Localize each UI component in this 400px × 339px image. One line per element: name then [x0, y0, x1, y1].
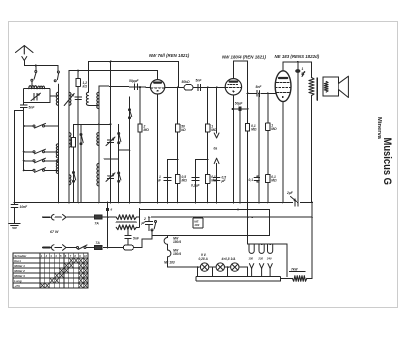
svg-text:6: 6 [111, 208, 113, 212]
svg-text:0,2µF: 0,2µF [191, 184, 200, 188]
capacitor 5nF below L1 [15, 103, 36, 111]
wire L1 box to coil rail [50, 95, 58, 97]
tube V1 NW76 [150, 71, 164, 203]
svg-text:µF: µF [221, 179, 227, 183]
capacitor 5nF (after 50k) [196, 79, 203, 91]
coil column x98.8 [97, 86, 99, 203]
resistor 50k [182, 80, 193, 90]
svg-text:1MΩ: 1MΩ [211, 125, 217, 133]
band switch row 4 [23, 168, 59, 173]
svg-text:NE 183 (RENS 1822d): NE 183 (RENS 1822d) [275, 54, 320, 59]
bus2 y209.5 [140, 209, 270, 237]
svg-text:150: 150 [248, 256, 253, 260]
svg-text:1MΩ: 1MΩ [271, 124, 277, 132]
tube V3 NE183 output pentode [275, 62, 291, 203]
selector pin 240 [268, 264, 272, 277]
selector pin 220 [259, 264, 263, 277]
svg-text:+TA: +TA [14, 284, 20, 288]
ground bus y202.5 [14, 202, 313, 204]
svg-text:0a: 0a [214, 147, 218, 151]
lamp 2 [216, 263, 224, 271]
svg-text:0,1MΩ: 0,1MΩ [271, 175, 277, 183]
V3 top line to transformer [283, 61, 312, 63]
varcap column x110.5 [106, 62, 115, 203]
svg-text:Minerva: Minerva [376, 117, 382, 140]
svg-text:0,28 A: 0,28 A [199, 257, 209, 261]
svg-text:5nF: 5nF [133, 237, 140, 241]
svg-text:50µF: 50µF [235, 101, 244, 105]
svg-text:183: 183 [194, 223, 199, 227]
mains row1 y217.2 [43, 214, 116, 225]
column x177.7 R50k + 0.5M [176, 87, 188, 202]
svg-text:67 W: 67 W [50, 230, 59, 234]
svg-text:0,1MΩ: 0,1MΩ [211, 175, 217, 183]
column x216.6 jack 0a [213, 87, 226, 202]
tube V2 NW180 [225, 61, 241, 203]
dropper resistors [116, 209, 139, 230]
horiz y150.2 stub [119, 149, 131, 151]
column x195.5 cap 0.2uF [191, 159, 209, 203]
column x207.7 R1M + 0.1M [206, 87, 217, 202]
mains switch cap 2uF [141, 216, 157, 231]
switch column x118.7 [118, 124, 121, 202]
output transformer primary [309, 62, 314, 203]
selector fork 150 [248, 244, 254, 260]
column x140 R 2M [138, 87, 149, 203]
svg-text:Mittel 3: Mittel 3 [14, 274, 25, 278]
svg-text:1,2kΩ: 1,2kΩ [83, 81, 88, 89]
svg-text:50kΩ: 50kΩ [182, 80, 191, 84]
svg-text:0,1: 0,1 [249, 178, 254, 182]
svg-text:7A: 7A [95, 222, 100, 226]
vertical x107.6 [107, 203, 109, 248]
resistor to rail [281, 267, 313, 281]
grid line y70.6 [69, 70, 158, 72]
coil rail A x58 [56, 92, 58, 203]
lamp wiring [197, 266, 248, 277]
selector pin 150 [249, 264, 253, 277]
horiz y108.4 + electrolytic 50uF [232, 101, 249, 202]
lamp 3 [231, 263, 239, 271]
antenna [16, 46, 34, 66]
horiz y158.8 stub [104, 158, 119, 160]
lamp 1 [200, 263, 208, 271]
right rail to bottom [311, 203, 313, 279]
mains row2 y247.5 [43, 231, 152, 251]
line after V2 y92.4 [247, 92, 276, 94]
svg-text:NW 76/l (REN 1821): NW 76/l (REN 1821) [149, 53, 190, 58]
band switch rail [23, 111, 25, 171]
svg-text:Kurz: Kurz [14, 259, 21, 263]
switch S2 [54, 71, 59, 92]
speaker [323, 76, 348, 97]
cathode electrolytic x297.8 [295, 62, 306, 203]
svg-text:µF: µF [156, 179, 162, 183]
column x267.8 R1M + R0.1M [266, 93, 277, 202]
svg-text:180/4: 180/4 [173, 252, 181, 256]
selector fork 240 [266, 244, 273, 260]
cap 5nF across [125, 226, 140, 248]
svg-text:2µF: 2µF [286, 191, 294, 195]
band switch row 3 [23, 158, 59, 163]
tube id box [193, 217, 203, 228]
band switch row 2 [23, 149, 59, 154]
column x167.5 cathode bypass 1uF [156, 159, 179, 203]
svg-text:5nF: 5nF [29, 106, 36, 110]
feedback line top y61.5 [88, 61, 178, 93]
svg-text:0,5MΩ: 0,5MΩ [182, 175, 188, 183]
selector bar [196, 277, 280, 281]
antenna coil box L1 [24, 86, 50, 103]
vertical x248.7 bus1-bus3 [247, 203, 249, 218]
svg-text:220: 220 [257, 256, 263, 260]
svg-text:7kW: 7kW [291, 267, 299, 271]
wire antenna to switches [24, 65, 58, 72]
switch S1 [31, 71, 37, 89]
svg-text:5nF: 5nF [256, 85, 263, 89]
R column x73.5 [71, 124, 75, 202]
column x259 cap 0.1 [249, 93, 260, 202]
svg-text:5nF: 5nF [196, 79, 203, 83]
coil rail B x69 [64, 71, 74, 203]
column x247.6 R0.1M [246, 124, 257, 132]
transformer core [316, 78, 318, 100]
left rail [14, 111, 16, 203]
V2 grid top link [233, 61, 247, 203]
svg-text:Mittel 1: Mittel 1 [14, 264, 25, 268]
voltage selector bracket [248, 217, 288, 277]
svg-text:Mittel 2: Mittel 2 [14, 269, 25, 273]
svg-text:50µµF: 50µµF [129, 79, 139, 83]
main signal line y87.4 [99, 86, 225, 88]
svg-text:7A: 7A [96, 241, 101, 245]
capacitor 5nF (to V3 grid) [256, 85, 263, 97]
switch column x129.5 [129, 97, 132, 203]
svg-text:50kΩ: 50kΩ [181, 125, 186, 133]
svg-text:240: 240 [266, 256, 272, 260]
ground symbol [9, 223, 21, 227]
bus3 y217.2 [151, 216, 313, 218]
svg-text:4×0,8 1/A: 4×0,8 1/A [221, 257, 237, 261]
capacitor 50uuF [129, 79, 141, 90]
svg-text:Lang: Lang [14, 279, 22, 283]
switch column x81 [80, 124, 83, 202]
selector fork 220 [257, 244, 264, 260]
series cap 2uF on bus [286, 191, 298, 206]
svg-text:NE 183: NE 183 [164, 261, 175, 265]
switch program table [13, 253, 88, 288]
svg-text:180/4: 180/4 [173, 240, 181, 244]
capacitor 10nF to ground [11, 203, 28, 224]
band switch row 1 [23, 123, 59, 128]
horiz y124.4 [74, 123, 112, 125]
svg-text:NW 180/4 (REN 1821): NW 180/4 (REN 1821) [222, 55, 266, 60]
svg-text:Musicus G: Musicus G [381, 138, 393, 186]
R 1.2k column x78 [75, 71, 87, 203]
heater chain [164, 236, 200, 268]
svg-text:0,1MΩ: 0,1MΩ [251, 124, 257, 132]
svg-text:Schalter: Schalter [14, 254, 27, 258]
svg-text:10nF: 10nF [20, 205, 29, 209]
coil x88 [86, 92, 98, 105]
svg-text:2MΩ: 2MΩ [143, 125, 150, 133]
